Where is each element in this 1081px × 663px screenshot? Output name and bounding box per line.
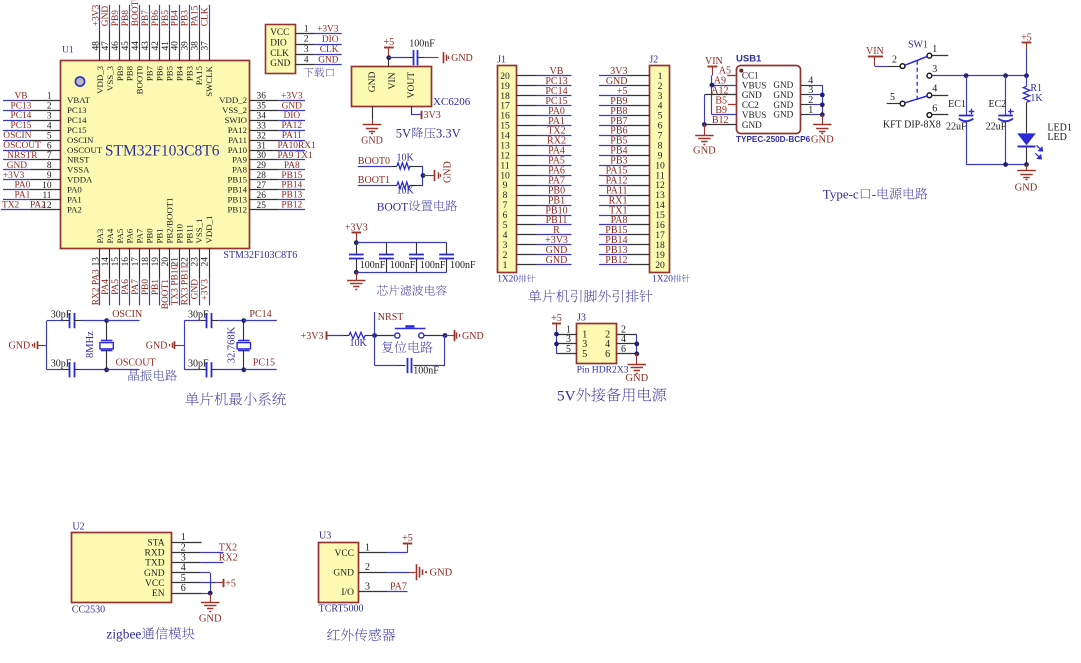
ground GND right of 100nF xyxy=(444,52,473,64)
svg-text:NRST: NRST xyxy=(378,312,404,323)
power VIN at SW1 xyxy=(866,46,884,66)
wire J2 pin16 net PA8 xyxy=(599,215,649,226)
svg-text:DIO: DIO xyxy=(283,111,300,121)
svg-text:27: 27 xyxy=(257,181,267,191)
wire pin20 net BOOT1 (bottom) xyxy=(161,198,175,310)
caption MCU pin breakout headers xyxy=(528,290,652,303)
wire J3 pin2 (right) xyxy=(617,324,637,335)
pin A5 stub CC1 xyxy=(719,66,737,77)
svg-text:34: 34 xyxy=(257,112,267,122)
svg-text:13: 13 xyxy=(91,257,101,267)
connector download port body xyxy=(266,25,296,74)
svg-text:3: 3 xyxy=(47,112,52,122)
junction bus R1 xyxy=(1024,73,1029,78)
svg-text:VBUS: VBUS xyxy=(742,110,767,120)
wire U2 pin5 VCC to +5 xyxy=(172,573,223,584)
ground GND at USB left xyxy=(693,125,716,157)
svg-text:PA5: PA5 xyxy=(111,279,121,295)
wire J1 pin14 net TX2 xyxy=(517,126,572,137)
svg-text:GND: GND xyxy=(282,101,303,111)
junction crystal top node xyxy=(104,318,109,323)
svg-text:SWCLK: SWCLK xyxy=(204,65,214,96)
svg-text:7: 7 xyxy=(47,151,52,161)
junction VIN/VBUS node xyxy=(710,83,715,88)
svg-text:5V: 5V xyxy=(557,387,576,404)
ground GND at U3 (rotated earth) xyxy=(417,564,453,580)
svg-text:VCC: VCC xyxy=(270,28,289,38)
svg-text:BOOT0: BOOT0 xyxy=(131,0,141,26)
svg-text:+3V3: +3V3 xyxy=(201,279,211,301)
svg-text:11: 11 xyxy=(42,191,51,201)
power +5 at J3 xyxy=(551,313,562,330)
wire pin43 net PB7 (top) xyxy=(141,5,155,81)
svg-text:PB6: PB6 xyxy=(151,10,161,26)
svg-text:43: 43 xyxy=(141,41,151,51)
svg-text:VCC: VCC xyxy=(145,579,165,589)
wire J1 pin12 net PA4 xyxy=(517,146,572,157)
svg-text:CLK: CLK xyxy=(201,7,211,26)
svg-text:2: 2 xyxy=(892,55,897,66)
wire VIN to VBUS pins xyxy=(712,73,737,115)
svg-text:GND: GND xyxy=(333,568,354,578)
svg-text:PA9: PA9 xyxy=(232,155,247,165)
svg-text:GND: GND xyxy=(773,80,793,90)
wire download-port pin4 net GND xyxy=(296,55,342,65)
resistor 10K at BOOT0 xyxy=(358,152,423,169)
wire pin14 net PA4 (bottom) xyxy=(101,228,115,305)
wire pin41 net PB5 (top) xyxy=(161,5,175,81)
wire pin9 net +3V3 xyxy=(3,171,93,185)
svg-text:STM32F103C8T6: STM32F103C8T6 xyxy=(105,142,220,159)
wire VIN pin to box xyxy=(388,58,390,67)
svg-text:U1: U1 xyxy=(62,46,74,56)
wire pin35 net GND (right) xyxy=(222,101,305,115)
svg-text:DIO: DIO xyxy=(270,39,287,49)
IC U2 CC2530 body xyxy=(72,522,172,616)
svg-text:VDD_3: VDD_3 xyxy=(95,65,105,93)
wire J3 pin4 (right) xyxy=(617,334,637,345)
power 3V3 at XC6206 VOUT xyxy=(411,106,441,121)
wire pin47 net GND (top) xyxy=(101,5,115,91)
svg-text:USB1: USB1 xyxy=(736,54,762,65)
svg-text:PA2: PA2 xyxy=(30,201,46,211)
capacitor EC2 22uF xyxy=(986,76,1014,165)
svg-text:33: 33 xyxy=(257,122,267,132)
svg-text:8: 8 xyxy=(47,161,52,171)
junction at VIN node xyxy=(386,55,391,60)
wire download-port pin1 net +3V3 xyxy=(296,24,342,34)
svg-text:VCC: VCC xyxy=(334,549,354,559)
svg-text:CLK: CLK xyxy=(270,49,289,59)
svg-text:XC6206: XC6206 xyxy=(433,96,471,108)
svg-text:PA0: PA0 xyxy=(67,185,82,195)
caption crystal circuit xyxy=(128,370,176,381)
wire pin25 net PB12 (right) xyxy=(227,201,305,215)
svg-text:4: 4 xyxy=(932,84,937,95)
svg-text:45: 45 xyxy=(121,41,131,51)
wire USB1 pin1 GND (right) xyxy=(801,105,822,116)
connector J3 Pin HDR2X3 body xyxy=(577,313,629,376)
svg-text:+5: +5 xyxy=(383,37,394,48)
wire pin5 net OSCIN xyxy=(3,131,94,145)
svg-text:GND: GND xyxy=(199,614,222,625)
svg-text:PA6: PA6 xyxy=(121,279,131,295)
ground GND at BOOT node xyxy=(423,161,454,183)
IC U3 TCRT5000 body xyxy=(319,531,364,615)
caption 5V external backup power xyxy=(557,387,666,404)
svg-text:31: 31 xyxy=(257,141,267,151)
pin A12 stub GND xyxy=(704,85,736,96)
svg-text:VSS_2: VSS_2 xyxy=(222,105,247,115)
resistor R1 1K xyxy=(1023,76,1043,134)
svg-text:Type-c: Type-c xyxy=(823,187,859,202)
wire net OSCIN xyxy=(107,309,143,321)
wire J1 pin18 net PC14 xyxy=(517,86,572,97)
svg-text:1: 1 xyxy=(808,105,813,116)
svg-text:GND: GND xyxy=(361,135,383,146)
svg-text:GND: GND xyxy=(773,110,793,120)
svg-text:PA11: PA11 xyxy=(282,131,302,141)
junction crystal top node xyxy=(241,318,246,323)
svg-text:+3V3: +3V3 xyxy=(91,4,101,26)
svg-text:PC14: PC14 xyxy=(249,309,271,320)
svg-text:PB1: PB1 xyxy=(151,279,161,295)
svg-text:+5: +5 xyxy=(551,313,562,324)
caption J1 1X20 pin header xyxy=(497,274,535,284)
svg-text:25: 25 xyxy=(257,201,267,211)
svg-text:6: 6 xyxy=(605,349,610,360)
wire pin31 net PA10RX1 (right) xyxy=(228,141,316,155)
svg-text:VSS_1: VSS_1 xyxy=(194,219,204,244)
wire pin1 net VB xyxy=(3,91,91,105)
svg-text:3.3V: 3.3V xyxy=(436,127,461,141)
svg-text:PB0: PB0 xyxy=(141,279,151,295)
svg-text:PB5: PB5 xyxy=(161,10,171,26)
wire J2 pin4 net PB9 xyxy=(599,96,649,107)
wire pin32 net PA11 (right) xyxy=(228,131,305,145)
svg-text:41: 41 xyxy=(161,41,171,51)
svg-text:30pF: 30pF xyxy=(188,309,209,320)
wire J2 pin11 net PA15 xyxy=(599,166,649,177)
svg-text:36: 36 xyxy=(257,92,267,102)
LED LED1 xyxy=(1017,122,1072,164)
svg-text:30pF: 30pF xyxy=(51,358,72,369)
wire pin7 net NRSTR xyxy=(3,151,90,165)
capacitor 30pF top (PC14) xyxy=(184,309,244,328)
ground GND at XC6206 GND pin xyxy=(361,106,383,146)
wire J3 pin5 (left) xyxy=(557,344,577,355)
wire J1 pin6 net PB10 xyxy=(517,205,572,216)
ground GND at crystal xyxy=(9,341,47,352)
capacitor 100nF filter #4 xyxy=(439,243,476,273)
svg-text:PB4: PB4 xyxy=(171,10,181,26)
svg-text:PA15: PA15 xyxy=(194,65,204,85)
svg-text:CLK: CLK xyxy=(320,45,339,55)
svg-text:PA7: PA7 xyxy=(135,228,145,243)
svg-text:OSCIN: OSCIN xyxy=(112,309,142,320)
caption BOOT setting circuit xyxy=(377,200,457,213)
wire USB1 pin3 GND (right) xyxy=(801,85,822,96)
svg-text:NRST: NRST xyxy=(67,155,90,165)
wire J2 pin8 net PB5 xyxy=(599,136,649,147)
svg-text:PB6: PB6 xyxy=(155,65,165,81)
svg-text:14: 14 xyxy=(101,257,111,267)
wire net OSCOUT xyxy=(107,358,156,370)
svg-text:39: 39 xyxy=(181,41,191,51)
svg-text:GND: GND xyxy=(773,90,793,100)
ground at filter caps xyxy=(347,272,365,289)
ground GND at crystal xyxy=(146,341,184,352)
power +5 at XC6206 VIN xyxy=(383,37,394,58)
capacitor 30pF bottom (OSCOUT) xyxy=(47,358,107,377)
junction USB right node pin2 xyxy=(820,102,825,107)
svg-text:PB12: PB12 xyxy=(605,255,627,266)
wire J3 pin3 (left) xyxy=(557,334,577,345)
wire pin45 net PB8 (top) xyxy=(121,5,135,81)
wire pin18 net PB0 (bottom) xyxy=(141,228,155,306)
svg-text:STA: STA xyxy=(147,538,164,548)
svg-text:100nF: 100nF xyxy=(360,260,386,271)
svg-text:+3V3: +3V3 xyxy=(281,91,303,101)
svg-text:PA4: PA4 xyxy=(105,228,115,243)
svg-text:2: 2 xyxy=(47,102,52,112)
svg-text:GND: GND xyxy=(1015,183,1038,194)
svg-text:19: 19 xyxy=(151,257,161,267)
wire J1 pin17 net PC15 xyxy=(517,96,572,107)
svg-text:20: 20 xyxy=(161,257,171,267)
wire pin36 net +3V3 (right) xyxy=(219,91,305,105)
svg-text:RX2 PA3: RX2 PA3 xyxy=(91,269,101,305)
svg-text:TYPEC-250D-BCP6: TYPEC-250D-BCP6 xyxy=(736,135,811,144)
junction USB right node pin1 xyxy=(820,112,825,117)
wire J1 pin11 net PA5 xyxy=(517,156,572,167)
svg-text:GND: GND xyxy=(693,146,716,157)
svg-text:BOOT0: BOOT0 xyxy=(135,65,145,94)
svg-text:OSCOUT: OSCOUT xyxy=(67,145,103,155)
svg-text:J2: J2 xyxy=(649,54,658,65)
svg-text:GND: GND xyxy=(742,90,762,100)
wire J3 pin1 (left) xyxy=(557,324,577,335)
svg-text:22uF: 22uF xyxy=(946,122,967,133)
svg-text:PB15: PB15 xyxy=(227,175,247,185)
wire J1 pin16 net PA0 xyxy=(517,106,572,117)
svg-text:3: 3 xyxy=(365,582,370,593)
wire pin17 net PA7 (bottom) xyxy=(131,228,145,305)
wire J1 pin15 net PA1 xyxy=(517,116,572,127)
ground GND at USB right xyxy=(811,115,834,146)
svg-text:GND: GND xyxy=(462,331,484,342)
wire J2 pin1 net 3V3 xyxy=(599,66,649,77)
svg-text:47: 47 xyxy=(101,41,111,51)
wire U2 pin3 net RX2 xyxy=(172,553,238,564)
wire USB left ground vertical xyxy=(704,95,706,125)
svg-text:VSS_3: VSS_3 xyxy=(105,65,115,91)
svg-text:32.768K: 32.768K xyxy=(227,326,238,363)
pin A9 designator xyxy=(714,76,726,87)
wire pin11 net PA1 xyxy=(3,191,82,205)
junction J3 pin6 node xyxy=(634,351,639,356)
wire pin29 net PA8 (right) xyxy=(232,161,305,175)
svg-text:PA7: PA7 xyxy=(131,279,141,295)
wire pin23 net GND (bottom) xyxy=(191,219,205,306)
pin B9 designator xyxy=(715,105,727,116)
svg-text:CC2530: CC2530 xyxy=(72,604,105,615)
wire J1 pin9 net PA7 xyxy=(517,175,572,186)
wire J2 pin15 net TX1 xyxy=(599,205,649,216)
svg-text:37: 37 xyxy=(201,41,211,51)
pin B12 stub GND xyxy=(704,115,736,126)
svg-text:J1: J1 xyxy=(497,54,506,65)
svg-text:-: - xyxy=(872,187,876,202)
svg-text:CC2: CC2 xyxy=(742,100,759,110)
svg-text:GND: GND xyxy=(270,59,290,69)
wire pin34 net DIO (right) xyxy=(225,111,305,125)
svg-text:PA6: PA6 xyxy=(125,228,135,243)
svg-text:PB9: PB9 xyxy=(115,65,125,81)
svg-text:5: 5 xyxy=(890,92,895,103)
push-button reset switch xyxy=(375,327,445,339)
svg-text:1: 1 xyxy=(304,24,309,34)
wire pin26 net PB13 (right) xyxy=(227,191,305,205)
svg-text:16: 16 xyxy=(121,257,131,267)
svg-text:+3V3: +3V3 xyxy=(3,171,25,181)
wire J1 pin19 net PC13 xyxy=(517,76,572,87)
svg-text:VDD_2: VDD_2 xyxy=(219,95,247,105)
svg-text:30: 30 xyxy=(257,151,267,161)
svg-text:GND: GND xyxy=(773,100,793,110)
svg-text:26: 26 xyxy=(257,191,267,201)
power +3V3 at filter caps xyxy=(345,222,368,242)
svg-text:GND: GND xyxy=(9,341,31,352)
svg-text:100nF: 100nF xyxy=(413,366,439,377)
wire pin4 net PC15 xyxy=(3,121,87,135)
svg-text:PA12: PA12 xyxy=(228,125,247,135)
svg-text:100nF: 100nF xyxy=(420,260,446,271)
wire J2 pin7 net PB6 xyxy=(599,126,649,137)
wire pin37 net CLK (top) xyxy=(201,5,215,97)
wire filter-cap top bus xyxy=(356,242,446,244)
junction J3 pin3 node xyxy=(554,342,559,347)
svg-text:2: 2 xyxy=(365,562,370,573)
wire pin8 net GND xyxy=(3,161,90,175)
wire J3 right vertical xyxy=(636,334,638,354)
svg-text:PB7: PB7 xyxy=(145,65,155,81)
wire J2 pin19 net PB13 xyxy=(599,245,649,256)
svg-text:PB12: PB12 xyxy=(227,204,247,214)
svg-text:U3: U3 xyxy=(319,531,331,542)
svg-text:100nF: 100nF xyxy=(450,260,476,271)
wire pin27 net PB14 (right) xyxy=(227,181,305,195)
svg-text:VBAT: VBAT xyxy=(67,95,91,105)
wire J1 pin10 net PA6 xyxy=(517,166,572,177)
svg-text:20: 20 xyxy=(655,260,665,271)
svg-text:U2: U2 xyxy=(72,522,84,533)
wire J2 pin20 net PB12 xyxy=(599,255,649,266)
svg-text:PB13: PB13 xyxy=(281,191,302,201)
wire USB1 pin4 GND (right) xyxy=(801,75,822,86)
wire filter-cap bottom bus xyxy=(356,272,446,274)
svg-text:35: 35 xyxy=(257,102,267,112)
svg-text:VIN: VIN xyxy=(866,46,884,57)
svg-text:EC1: EC1 xyxy=(948,99,966,110)
caption download port xyxy=(304,67,334,77)
svg-text:2: 2 xyxy=(304,35,309,45)
svg-text:SW1: SW1 xyxy=(908,40,928,51)
svg-text:GND: GND xyxy=(191,279,201,300)
svg-text:5V: 5V xyxy=(396,127,411,141)
caption reset circuit xyxy=(382,341,433,353)
resistor 10K at BOOT1 xyxy=(358,175,423,196)
svg-text:6: 6 xyxy=(181,583,186,594)
svg-text:STM32F103C8T6: STM32F103C8T6 xyxy=(223,250,297,261)
svg-text:PA4: PA4 xyxy=(101,279,111,295)
svg-text:38: 38 xyxy=(191,41,201,51)
svg-text:32: 32 xyxy=(257,131,267,141)
svg-text:9: 9 xyxy=(47,171,52,181)
wire pin46 net PB9 (top) xyxy=(111,5,125,81)
svg-text:22uF: 22uF xyxy=(986,122,1007,133)
svg-text:KFT DIP-8X8: KFT DIP-8X8 xyxy=(883,119,941,130)
wire download-port pin2 net DIO xyxy=(296,35,342,45)
capacitor 30pF top (OSCIN) xyxy=(47,309,107,328)
svg-text:+3V3: +3V3 xyxy=(301,331,324,342)
svg-text:PB0: PB0 xyxy=(145,228,155,244)
svg-text:OSCIN: OSCIN xyxy=(3,131,31,141)
svg-text:15: 15 xyxy=(111,257,121,267)
ground GND at J3 xyxy=(625,354,648,384)
wire net PC14 xyxy=(244,309,277,321)
svg-text:PA10: PA10 xyxy=(228,145,248,155)
wire J2 pin18 net PB14 xyxy=(599,235,649,246)
svg-text:PA10RX1: PA10RX1 xyxy=(278,141,317,151)
resistor 10K reset xyxy=(327,332,375,349)
wire J1 pin20 net VB xyxy=(517,66,572,77)
caption J2 1X20 pin header xyxy=(652,274,690,284)
svg-text:PB8: PB8 xyxy=(125,65,135,81)
power +5 at U3 xyxy=(402,533,413,553)
wire J2 pin12 net PA12 xyxy=(599,175,649,186)
wire pin10 net PA0 xyxy=(3,181,82,195)
svg-text:PA9 TX1: PA9 TX1 xyxy=(278,151,313,161)
svg-text:24: 24 xyxy=(201,257,211,267)
wire pin44 net BOOT0 (top) xyxy=(131,0,145,94)
svg-text:1X20: 1X20 xyxy=(652,275,673,285)
svg-text:B12: B12 xyxy=(712,115,729,126)
svg-text:zigbee: zigbee xyxy=(106,627,141,642)
caption MCU minimal system xyxy=(185,392,286,405)
wire pin39 net PB3 (top) xyxy=(181,5,195,81)
svg-text:GND: GND xyxy=(146,341,168,352)
wire download-port pin3 net CLK xyxy=(296,45,342,55)
wire pin13 net RX2 PA3 (bottom) xyxy=(91,228,105,305)
svg-text:PA2: PA2 xyxy=(67,204,82,214)
wire U3 pin2 GND xyxy=(359,562,416,573)
svg-text:LED: LED xyxy=(1047,132,1066,143)
wire J1 pin5 net PB11 xyxy=(517,215,572,226)
svg-text:+3V3: +3V3 xyxy=(317,25,339,35)
caption 5V step-down 3.3V xyxy=(396,127,461,141)
junction filter-cap top-left xyxy=(354,240,359,245)
svg-text:PB4: PB4 xyxy=(174,65,184,81)
svg-text:100nF: 100nF xyxy=(409,38,435,49)
wire power circuit bottom bus xyxy=(966,164,1026,166)
svg-text:42: 42 xyxy=(151,41,161,51)
power +3V3 at reset xyxy=(301,331,327,342)
wire pin21 net TX3 PB10 (bottom) xyxy=(171,223,185,305)
svg-text:17: 17 xyxy=(131,257,141,267)
capacitor 30pF bottom (PC15) xyxy=(184,358,244,377)
svg-text:BOOT: BOOT xyxy=(377,200,409,213)
